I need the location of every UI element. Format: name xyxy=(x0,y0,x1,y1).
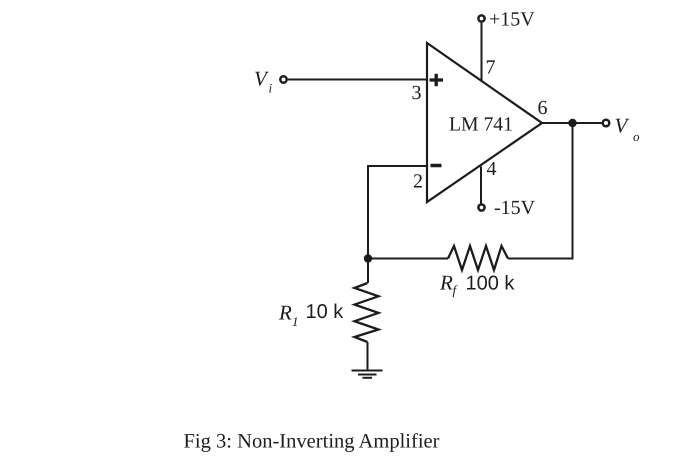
svg-text:7: 7 xyxy=(486,57,496,79)
svg-text:-15V: -15V xyxy=(494,197,536,219)
ground xyxy=(352,371,383,378)
op-amp U1 triangle xyxy=(427,43,542,202)
svg-text:2: 2 xyxy=(413,171,423,193)
junction node output xyxy=(568,119,576,127)
terminal -15V circle xyxy=(478,204,484,210)
svg-text:f: f xyxy=(453,283,459,298)
resistor R1 zigzag xyxy=(355,283,379,342)
svg-text:i: i xyxy=(269,81,273,96)
plus symbol at pin 3 xyxy=(430,74,444,86)
wire output from apex xyxy=(542,122,602,124)
wire pin 7 to +15V xyxy=(481,23,483,81)
svg-text:LM 741: LM 741 xyxy=(449,114,513,136)
terminal Vi circle xyxy=(280,76,286,82)
wire junction to R1 xyxy=(367,259,369,284)
svg-text:R: R xyxy=(278,301,292,325)
svg-text:V: V xyxy=(254,67,269,91)
wire junction to Rf xyxy=(368,258,448,260)
svg-text:100 k: 100 k xyxy=(466,273,516,295)
svg-text:4: 4 xyxy=(487,158,497,180)
terminal +15V circle xyxy=(478,15,484,21)
wire R1 to ground xyxy=(367,342,369,371)
svg-text:10 k: 10 k xyxy=(306,301,345,323)
junction node inverting/Rf/R1 xyxy=(364,254,372,262)
svg-text:1: 1 xyxy=(292,314,299,329)
svg-text:3: 3 xyxy=(412,82,422,104)
wire feedback vertical xyxy=(508,123,573,259)
svg-text:+15V: +15V xyxy=(489,9,535,31)
wire non-inverting input xyxy=(288,79,427,81)
wire inverting input xyxy=(368,166,427,259)
minus symbol at pin 2 xyxy=(431,164,442,168)
svg-text:o: o xyxy=(633,129,640,144)
svg-text:6: 6 xyxy=(538,97,548,119)
wire pin 4 to -15V xyxy=(480,167,482,204)
resistor Rf zigzag xyxy=(448,246,508,270)
svg-text:Fig 3: Non-Inverting Amplifier: Fig 3: Non-Inverting Amplifier xyxy=(184,431,440,453)
svg-text:V: V xyxy=(615,114,630,138)
terminal Vo circle xyxy=(603,120,610,127)
svg-text:R: R xyxy=(439,271,453,295)
